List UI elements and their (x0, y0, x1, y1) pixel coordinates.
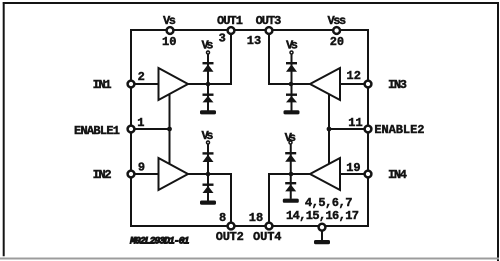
svg-text:OUT3: OUT3 (256, 14, 282, 28)
junction enable1 node (167, 127, 172, 132)
device outline (L293D package boundary) (131, 30, 368, 226)
svg-text:3: 3 (219, 32, 226, 46)
diode D1 upper clamp (203, 62, 214, 72)
svg-text:M92L293D1-01: M92L293D1-01 (129, 237, 190, 248)
pin 9 IN2 terminal (128, 171, 135, 178)
diode D4 lower clamp (203, 184, 214, 194)
ground pins terminal stem (321, 228, 323, 240)
clamp diode column 1 stem (207, 55, 209, 111)
pin 13 OUT3 terminal (266, 27, 273, 34)
svg-text:Vs: Vs (202, 38, 214, 52)
junction driver 4 output with clamp diodes (289, 172, 294, 177)
wire driver 2 output to OUT2 pin 8 (188, 174, 231, 224)
diode D5 upper clamp (286, 62, 297, 72)
op-amp driver 4 (310, 158, 340, 190)
diode D2 lower clamp (203, 94, 214, 103)
svg-text:19: 19 (346, 161, 360, 175)
svg-text:13: 13 (247, 34, 261, 48)
ground symbol of supply pins (314, 240, 330, 244)
svg-text:OUT4: OUT4 (253, 230, 282, 244)
wire IN1 pin to driver 1 input (133, 83, 159, 85)
ground pins terminal (319, 224, 326, 231)
svg-text:9: 9 (138, 161, 145, 175)
pin 2 IN1 terminal (128, 81, 135, 88)
svg-text:14,15,16,17: 14,15,16,17 (286, 209, 359, 223)
wire enable2 vertical to drivers 3 and 4 (328, 93, 330, 165)
wire IN2 pin to driver 2 input (133, 173, 159, 175)
svg-text:ENABLE1: ENABLE1 (74, 124, 120, 138)
svg-text:18: 18 (249, 211, 263, 225)
junction driver 1 output with clamp diodes (206, 82, 211, 87)
Vs terminal of column 2 (207, 141, 210, 144)
op-amp driver 2 (159, 158, 189, 190)
svg-text:8: 8 (219, 211, 226, 225)
clamp diode column 2 stem (207, 145, 209, 202)
Vs terminal of column 3 (290, 51, 293, 54)
svg-text:10: 10 (162, 35, 176, 49)
diode D6 lower clamp (286, 94, 297, 103)
ground of column 3 (284, 110, 300, 114)
wire driver 1 output to OUT1 pin 3 (188, 33, 231, 85)
pin 3 OUT1 terminal (228, 27, 235, 34)
svg-text:Vs: Vs (285, 131, 297, 145)
pin 12 IN3 terminal (365, 81, 372, 88)
wire enable1 vertical to drivers 1 and 2 (169, 93, 171, 165)
svg-text:Vss: Vss (328, 14, 347, 28)
pin 19 IN4 terminal (365, 171, 372, 178)
svg-text:IN1: IN1 (93, 78, 112, 92)
wire IN3 pin to driver 3 input (340, 83, 367, 85)
pin 11 ENABLE2 terminal (365, 126, 372, 133)
pin 10 Vs terminal (167, 27, 174, 34)
svg-text:OUT2: OUT2 (216, 230, 244, 244)
svg-text:IN3: IN3 (388, 78, 407, 92)
wire driver 3 output to OUT3 pin 13 (269, 33, 310, 85)
op-amp driver 1 (159, 68, 189, 100)
svg-text:IN2: IN2 (93, 168, 112, 182)
wire ENABLE1 pin to enable junction (133, 128, 170, 130)
diode D7 upper clamp (285, 152, 296, 162)
pin 1 ENABLE1 terminal (128, 126, 135, 133)
ground of column 2 (200, 201, 216, 205)
svg-text:12: 12 (347, 69, 361, 83)
svg-text:Vs: Vs (202, 129, 214, 143)
svg-text:20: 20 (330, 35, 344, 49)
svg-text:OUT1: OUT1 (217, 14, 243, 28)
wire driver 4 output to OUT4 pin 18 (269, 174, 310, 224)
ground of column 4 (283, 199, 299, 203)
pin 18 OUT4 terminal (266, 223, 273, 230)
pin 20 Vss terminal (333, 27, 340, 34)
Vs terminal of column 1 (207, 51, 210, 54)
svg-text:2: 2 (138, 70, 145, 84)
wire IN4 pin to driver 4 input (340, 173, 367, 175)
svg-text:IN4: IN4 (388, 168, 407, 182)
svg-text:ENABLE2: ENABLE2 (374, 123, 424, 137)
svg-text:Vs: Vs (286, 38, 298, 52)
svg-text:4,5,6,7: 4,5,6,7 (305, 196, 353, 210)
wire ENABLE2 pin to enable junction (329, 128, 367, 130)
junction driver 2 output with clamp diodes (206, 172, 211, 177)
diode D3 upper clamp (203, 152, 214, 162)
svg-text:11: 11 (348, 116, 362, 130)
junction enable2 node (327, 127, 332, 132)
op-amp driver 3 (310, 68, 340, 100)
ground of column 1 (200, 110, 216, 114)
pin 8 OUT2 terminal (228, 223, 235, 230)
junction driver 3 output with clamp diodes (289, 82, 294, 87)
clamp diode column 4 stem (290, 145, 292, 199)
Vs terminal of column 4 (289, 141, 292, 144)
svg-text:Vs: Vs (163, 14, 176, 28)
clamp diode column 3 stem (291, 55, 293, 111)
svg-text:1: 1 (137, 116, 144, 130)
diode D8 lower clamp (285, 182, 296, 191)
